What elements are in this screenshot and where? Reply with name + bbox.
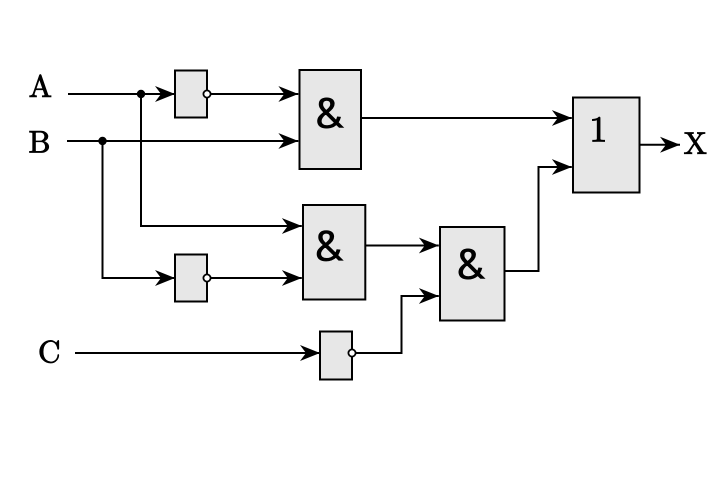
AND gate U5 bbox=[440, 227, 505, 321]
wire inverter U2 to AND gate U1 pin 1 bbox=[211, 93, 299, 95]
wire inverter U4 to AND gate U3 pin 2 bbox=[211, 277, 302, 279]
junction on wire B bbox=[98, 137, 106, 145]
inverter U7 (NOT C) bbox=[320, 332, 356, 380]
wire B branch to inverter U4 bbox=[103, 141, 176, 278]
input label A bbox=[30, 75, 51, 97]
OR gate U6 bbox=[573, 98, 640, 193]
inverter U4 (NOT B) bbox=[175, 255, 211, 302]
inverter U2 (NOT A) bbox=[175, 71, 211, 118]
input label C bbox=[40, 340, 59, 363]
wire C to inverter U7 bbox=[75, 352, 320, 354]
wire A to inverter U2 bbox=[68, 93, 175, 95]
wire OR gate U6 output to X bbox=[640, 144, 681, 146]
wire AND gate U1 output to OR gate U6 pin 1 bbox=[361, 117, 572, 119]
wire inverter U7 to AND gate U5 pin 2 bbox=[356, 296, 439, 353]
AND gate U3 bbox=[303, 205, 365, 300]
wire AND gate U3 output to AND gate U5 pin 1 bbox=[365, 245, 439, 247]
AND gate U1 bbox=[300, 70, 362, 169]
junction on wire A bbox=[137, 90, 145, 98]
wire AND gate U5 output to OR gate U6 pin 2 bbox=[505, 167, 572, 271]
input label B bbox=[30, 131, 49, 152]
wire B to AND gate U1 pin 2 bbox=[67, 140, 298, 142]
output label X bbox=[684, 133, 706, 154]
wire A branch to AND gate U3 pin 1 bbox=[141, 94, 302, 226]
